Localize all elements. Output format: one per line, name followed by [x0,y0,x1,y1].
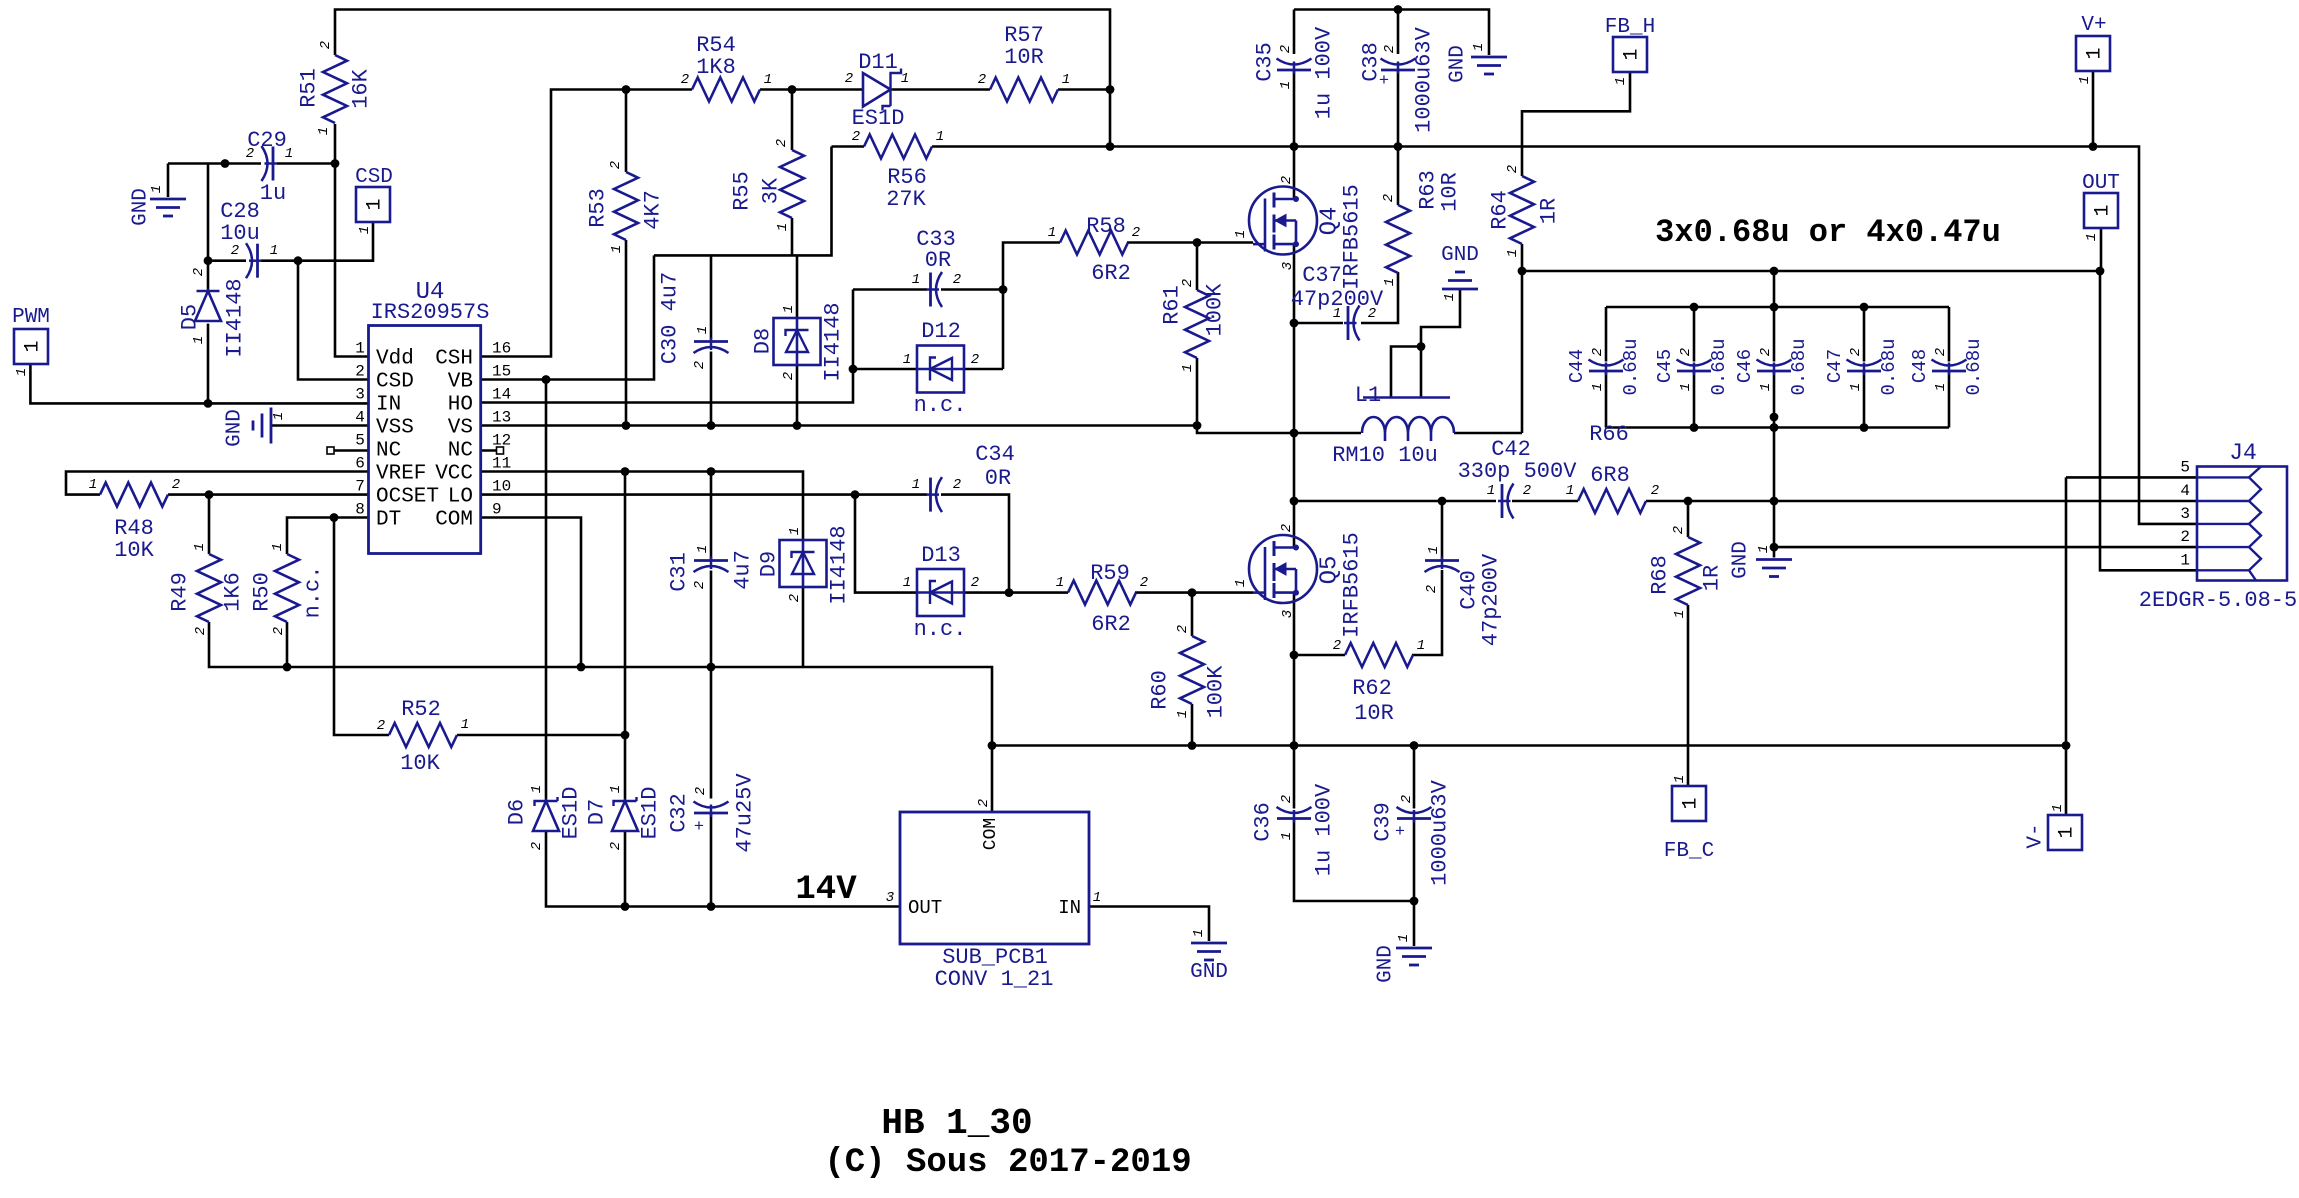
svg-text:7: 7 [355,478,365,496]
capacitor C31 [694,566,729,572]
junction dots [221,159,230,168]
svg-text:LO: LO [448,486,473,509]
svg-text:1K8: 1K8 [696,55,736,80]
svg-text:1: 1 [609,245,625,253]
svg-text:D13: D13 [921,543,961,568]
svg-text:1: 1 [912,272,920,288]
svg-text:1: 1 [270,243,278,259]
svg-text:2: 2 [608,842,624,850]
svg-text:FB_H: FB_H [1605,16,1655,39]
svg-text:1: 1 [1621,48,1644,60]
svg-text:1: 1 [1278,81,1294,89]
resistor R63 [1386,205,1410,273]
connector J4 2EDGR-5.08-5 [2197,467,2287,581]
resistor R58 [1060,231,1128,255]
svg-text:1: 1 [1758,383,1774,391]
svg-text:1000u63V: 1000u63V [1412,26,1437,132]
svg-text:GND: GND [224,409,247,447]
svg-text:1: 1 [191,336,207,344]
resistor R55 [780,150,804,218]
svg-text:2: 2 [971,352,979,368]
svg-text:2: 2 [193,627,209,635]
resistor R62 [1345,643,1413,667]
svg-text:D8: D8 [751,328,776,354]
svg-text:0.68u: 0.68u [1878,338,1900,395]
svg-text:2: 2 [377,718,385,734]
svg-text:6R8: 6R8 [1590,463,1630,488]
svg-text:10R: 10R [1004,45,1044,70]
svg-text:C39: C39 [1371,802,1396,842]
svg-text:1: 1 [936,129,944,145]
diode D5 [197,290,220,293]
svg-text:C35: C35 [1253,42,1278,82]
svg-text:2: 2 [318,41,334,49]
transistor Q5 [1249,535,1317,603]
port PWM [14,329,48,364]
svg-text:6R2: 6R2 [1091,261,1131,286]
svg-text:2: 2 [1140,575,1148,591]
svg-text:8: 8 [355,501,365,519]
svg-text:VCC: VCC [435,463,473,486]
svg-text:1: 1 [2077,76,2093,84]
svg-text:1u 100V: 1u 100V [1312,783,1337,876]
capacitor C37 [1354,306,1360,341]
svg-text:C34: C34 [975,442,1015,467]
svg-text:10R: 10R [1438,172,1463,212]
svg-text:PWM: PWM [12,306,50,329]
resistor R49 [197,554,221,622]
svg-text:2: 2 [355,363,365,381]
svg-text:+: + [1395,823,1405,842]
resistor R48 [100,483,168,507]
svg-text:16K: 16K [349,68,374,108]
svg-text:1: 1 [1613,77,1629,85]
svg-text:V+: V+ [2081,14,2106,37]
svg-text:II4148: II4148 [821,302,846,381]
svg-text:2: 2 [529,842,545,850]
svg-text:1: 1 [1672,775,1688,783]
capacitor C48 [1932,360,1967,366]
diode D12 [917,346,964,393]
resistor R64 [1510,176,1534,244]
svg-text:10K: 10K [114,538,154,563]
transistor Q4 [1249,187,1317,255]
svg-text:1: 1 [1505,249,1521,257]
svg-text:IRFB5615: IRFB5615 [1340,184,1365,290]
svg-text:FB_C: FB_C [1664,840,1714,863]
svg-text:GND: GND [1730,541,1753,579]
svg-text:2: 2 [1278,45,1294,53]
svg-text:COM: COM [981,818,1001,850]
svg-text:1: 1 [1442,293,1458,301]
svg-text:1: 1 [787,527,803,535]
svg-text:VS: VS [448,417,473,440]
svg-text:1: 1 [912,477,920,493]
svg-text:2: 2 [774,139,790,147]
resistor R50 [275,554,299,622]
port V+ [2076,36,2110,71]
svg-text:GND: GND [1375,945,1398,983]
svg-text:1: 1 [2056,826,2079,838]
capacitor C33 [936,272,942,307]
svg-text:n.c.: n.c. [914,617,967,642]
svg-text:1: 1 [1678,383,1694,391]
svg-text:47p200V: 47p200V [1479,553,1504,646]
svg-text:15: 15 [492,363,511,381]
svg-text:1: 1 [2084,233,2100,241]
svg-text:1: 1 [2180,551,2190,569]
svg-text:R51: R51 [297,68,322,108]
svg-text:RM10 10u: RM10 10u [1332,443,1438,468]
svg-text:L1: L1 [1355,383,1381,408]
resistor R57 [990,78,1058,102]
svg-text:1: 1 [781,305,797,313]
svg-text:0.68u: 0.68u [1963,338,1985,395]
svg-text:1: 1 [529,785,545,793]
inductor L1 [1363,396,1450,399]
op-amp U4 IRS20957S [369,326,481,554]
svg-text:2: 2 [1848,348,1864,356]
svg-text:CONV 1_21: CONV 1_21 [935,967,1054,992]
svg-text:0.68u: 0.68u [1620,338,1642,395]
resistor R51 [323,55,347,123]
svg-text:2: 2 [231,243,239,259]
svg-text:16: 16 [492,340,511,358]
svg-text:2: 2 [1651,483,1659,499]
svg-text:3: 3 [886,890,894,906]
svg-text:1000u63V: 1000u63V [1428,779,1453,885]
svg-text:2: 2 [781,372,797,380]
resistor R54 [692,78,760,102]
svg-text:1: 1 [270,543,286,551]
svg-text:2: 2 [681,72,689,88]
svg-text:14: 14 [492,386,511,404]
svg-text:n.c.: n.c. [301,566,326,619]
svg-text:9: 9 [492,501,502,519]
svg-text:IRS20957S: IRS20957S [371,300,490,325]
svg-text:J4: J4 [2229,440,2257,466]
svg-text:2: 2 [1175,625,1191,633]
svg-text:1: 1 [1471,43,1487,51]
svg-text:D7: D7 [585,799,610,825]
svg-text:1: 1 [608,785,624,793]
svg-text:1: 1 [764,72,772,88]
svg-text:1: 1 [1233,579,1249,587]
svg-text:1: 1 [2084,47,2107,59]
svg-text:1: 1 [1566,483,1574,499]
svg-text:R68: R68 [1648,555,1673,595]
svg-text:1: 1 [1062,72,1070,88]
svg-text:C36: C36 [1251,802,1276,842]
svg-text:4: 4 [2180,482,2190,500]
svg-text:1: 1 [1756,545,1772,553]
svg-text:R64: R64 [1488,190,1513,230]
port V- [2048,815,2082,850]
svg-text:C48: C48 [1909,349,1931,383]
capacitor C45 [1677,360,1712,366]
svg-text:2: 2 [1368,306,1376,322]
capacitor C46 [1757,360,1792,366]
svg-text:D5: D5 [178,304,203,330]
svg-text:1K6: 1K6 [221,572,246,612]
svg-text:C37: C37 [1302,263,1342,288]
svg-text:IN: IN [1058,897,1081,919]
svg-text:2: 2 [1382,45,1398,53]
resistor R59 [1068,581,1136,605]
diode D13 [917,569,964,616]
svg-text:100K: 100K [1204,665,1229,719]
svg-text:OUT: OUT [2082,172,2120,195]
svg-text:1: 1 [285,146,293,162]
svg-text:NC: NC [448,440,473,463]
svg-text:2: 2 [1758,348,1774,356]
svg-text:(C) Sous 2017-2019: (C) Sous 2017-2019 [824,1144,1191,1182]
svg-text:HO: HO [448,394,473,417]
svg-text:VREF: VREF [376,463,426,486]
svg-text:1: 1 [1175,710,1191,718]
diode D11 [863,73,891,107]
svg-text:10: 10 [492,478,511,496]
no-connect pin12 [497,447,504,454]
svg-text:+: + [694,818,704,837]
svg-text:2: 2 [1381,194,1397,202]
resistor R53 [614,172,638,240]
svg-text:VSS: VSS [376,417,414,440]
svg-text:1: 1 [901,71,909,87]
svg-text:100K: 100K [1203,283,1228,337]
ground [1442,288,1478,291]
svg-text:0R: 0R [925,248,951,273]
IC SUB_PCB1 CONV 1_21 [900,812,1089,944]
svg-text:4: 4 [355,409,365,427]
svg-text:1: 1 [775,223,791,231]
svg-text:GND: GND [1190,961,1228,984]
svg-text:1: 1 [903,575,911,591]
resistor R66 [1578,489,1646,513]
svg-text:2: 2 [692,581,708,589]
svg-text:NC: NC [376,440,401,463]
svg-text:1: 1 [1933,383,1949,391]
svg-text:GND: GND [1441,244,1479,267]
svg-text:2: 2 [172,477,180,493]
svg-text:1: 1 [1426,546,1442,554]
svg-text:CSD: CSD [376,371,414,394]
svg-text:1u 100V: 1u 100V [1312,26,1337,119]
svg-text:330p 500V: 330p 500V [1458,459,1578,484]
svg-text:IN: IN [376,394,401,417]
svg-text:2: 2 [1671,526,1687,534]
svg-text:CSD: CSD [355,166,393,189]
svg-text:II4148: II4148 [827,525,852,604]
svg-text:13: 13 [492,409,511,427]
svg-text:2: 2 [971,575,979,591]
svg-text:1: 1 [271,412,287,420]
capacitor C44 [1589,360,1624,366]
capacitor C38 [1381,59,1416,65]
ground [1191,942,1227,945]
svg-text:3K: 3K [759,177,784,204]
svg-text:10K: 10K [400,751,440,776]
svg-text:1: 1 [1680,797,1703,809]
svg-text:IRFB5615: IRFB5615 [1340,532,1365,638]
svg-text:1: 1 [316,127,332,135]
svg-text:3: 3 [355,386,365,404]
svg-text:1: 1 [1191,929,1207,937]
svg-text:OCSET: OCSET [376,486,439,509]
svg-text:2: 2 [787,594,803,602]
svg-text:1: 1 [1672,610,1688,618]
resistor R68 [1676,537,1700,605]
svg-text:2: 2 [191,268,207,276]
svg-text:D11: D11 [858,50,898,75]
capacitor C30 [694,347,729,353]
svg-text:2: 2 [1279,176,1295,184]
svg-text:2: 2 [1590,348,1606,356]
svg-text:V-: V- [2025,823,2048,848]
capacitor C36 [1277,807,1312,813]
svg-text:6: 6 [355,455,365,473]
svg-text:1: 1 [357,226,373,234]
svg-text:2: 2 [953,272,961,288]
svg-text:1: 1 [1180,364,1196,372]
svg-text:R60: R60 [1148,670,1173,710]
svg-text:2: 2 [1279,524,1295,532]
svg-text:2: 2 [1523,483,1531,499]
svg-text:1R: 1R [1700,565,1725,591]
svg-text:R50: R50 [250,572,275,612]
svg-text:R53: R53 [586,188,611,228]
svg-text:1: 1 [89,477,97,493]
svg-text:1: 1 [1056,575,1064,591]
svg-text:2: 2 [692,361,708,369]
svg-text:2: 2 [852,129,860,145]
diode D7 [614,797,637,806]
svg-text:VB: VB [448,371,473,394]
svg-text:ES1D: ES1D [638,787,663,840]
svg-text:10R: 10R [1354,701,1394,726]
svg-text:D6: D6 [505,799,530,825]
svg-text:2: 2 [1399,795,1415,803]
svg-text:47u25V: 47u25V [733,773,758,853]
svg-text:1: 1 [1396,934,1412,942]
svg-text:2EDGR-5.08-5: 2EDGR-5.08-5 [2139,588,2297,613]
wire [30,10,2197,947]
svg-text:1: 1 [695,326,711,334]
svg-text:COM: COM [435,509,473,532]
svg-text:1: 1 [1333,306,1341,322]
svg-text:HB 1_30: HB 1_30 [881,1103,1032,1144]
capacitor C32 [694,802,729,808]
svg-text:3: 3 [2180,505,2190,523]
svg-text:1: 1 [14,368,30,376]
svg-text:2: 2 [845,71,853,87]
svg-text:ES1D: ES1D [559,787,584,840]
svg-text:2: 2 [608,161,624,169]
svg-text:2: 2 [271,627,287,635]
svg-text:Vdd: Vdd [376,348,414,371]
svg-text:6R2: 6R2 [1091,612,1131,637]
svg-text:1: 1 [2050,804,2066,812]
svg-text:2: 2 [976,799,992,807]
svg-text:D9: D9 [757,551,782,577]
svg-text:II4148: II4148 [223,278,248,357]
port OUT [2084,193,2118,228]
svg-text:GND: GND [1447,45,1470,83]
svg-text:27K: 27K [886,187,926,212]
svg-text:2: 2 [1333,638,1341,654]
svg-text:C47: C47 [1824,349,1846,383]
svg-text:1: 1 [1848,383,1864,391]
capacitor C29 [262,146,268,181]
svg-text:R55: R55 [730,171,755,211]
svg-text:2: 2 [953,477,961,493]
no-connect pin5 [327,447,334,454]
svg-text:C32: C32 [667,793,692,833]
ground [1396,947,1432,950]
svg-text:ES1D: ES1D [852,106,905,131]
svg-text:11: 11 [492,455,511,473]
svg-text:2: 2 [978,72,986,88]
svg-text:R62: R62 [1352,676,1392,701]
svg-text:C30 4u7: C30 4u7 [658,272,683,364]
svg-text:2: 2 [1180,279,1196,287]
svg-text:1: 1 [22,340,45,352]
svg-text:1: 1 [364,198,387,210]
svg-text:1: 1 [149,185,165,193]
svg-text:CSH: CSH [435,348,473,371]
ground [1471,56,1507,59]
svg-text:4u7: 4u7 [731,550,756,590]
svg-text:2: 2 [1132,225,1140,241]
svg-text:C45: C45 [1654,349,1676,383]
svg-text:1: 1 [1487,483,1495,499]
svg-text:3: 3 [1280,262,1296,270]
svg-text:14V: 14V [795,871,857,909]
svg-text:D12: D12 [921,319,961,344]
svg-text:2: 2 [1424,585,1440,593]
ground [1756,558,1792,561]
svg-text:R49: R49 [168,572,193,612]
capacitor C35 [1277,59,1312,65]
svg-text:0.68u: 0.68u [1788,338,1810,395]
svg-text:1: 1 [355,340,365,358]
svg-text:C44: C44 [1566,349,1588,383]
ground [270,408,273,444]
svg-text:5: 5 [355,432,365,450]
svg-text:C31: C31 [667,552,692,592]
svg-text:0R: 0R [985,466,1011,491]
svg-text:3: 3 [1280,610,1296,618]
svg-text:1: 1 [1233,230,1249,238]
capacitor C34 [936,477,942,512]
svg-text:1R: 1R [1537,198,1562,224]
capacitor C40 [1425,566,1460,572]
svg-text:1: 1 [1590,383,1606,391]
svg-text:10u: 10u [220,221,260,246]
svg-text:0.68u: 0.68u [1708,338,1730,395]
svg-text:5: 5 [2180,458,2190,476]
svg-text:R61: R61 [1160,285,1185,325]
svg-text:1: 1 [461,717,469,733]
svg-text:DT: DT [376,509,401,532]
svg-text:n.c.: n.c. [914,393,967,418]
capacitor C28 [246,243,252,278]
svg-text:1: 1 [2092,204,2115,216]
svg-text:1: 1 [1048,225,1056,241]
svg-text:+: + [1379,72,1389,91]
diode D8 [774,318,821,365]
svg-text:C46: C46 [1734,349,1756,383]
